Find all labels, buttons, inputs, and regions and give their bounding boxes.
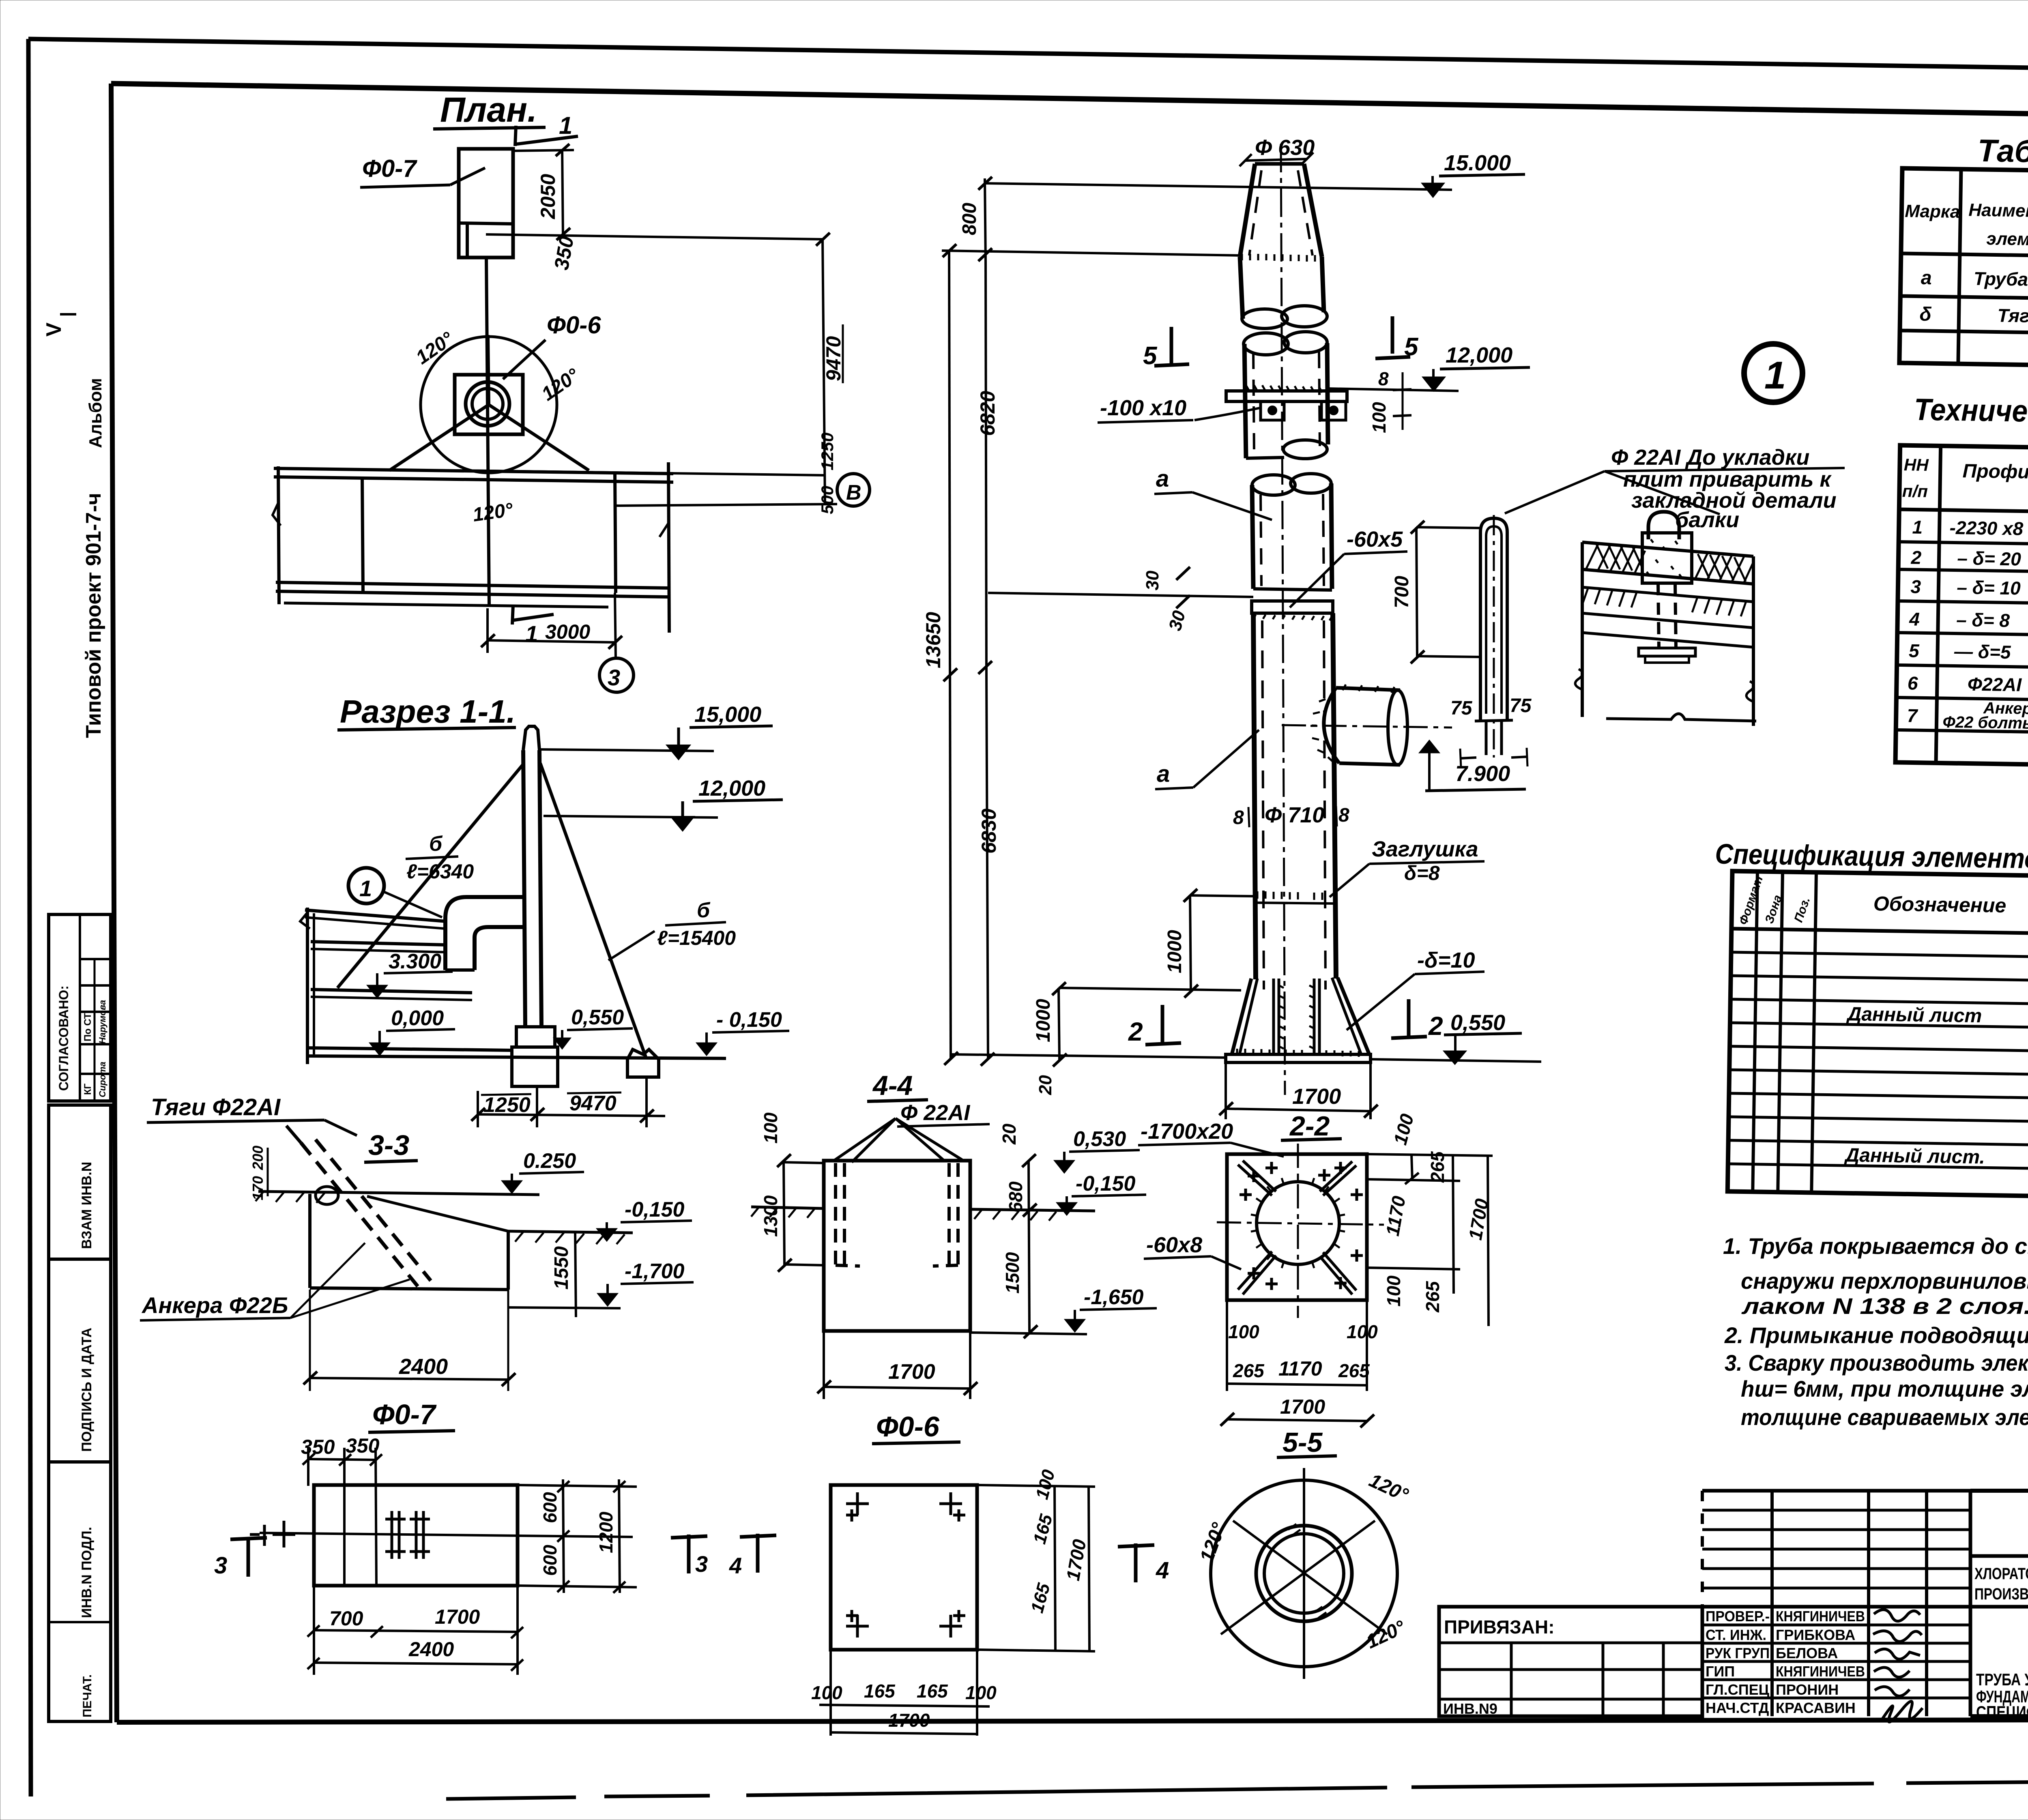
svg-text:элемента: элемента — [1986, 229, 2028, 250]
svg-text:0,000: 0,000 — [391, 1007, 444, 1030]
svg-text:1000: 1000 — [1033, 999, 1054, 1042]
svg-text:-2230 x8: -2230 x8 — [1949, 517, 2024, 539]
svg-text:Нарумова: Нарумова — [97, 1000, 107, 1044]
roof — [305, 910, 446, 921]
svg-text:НН: НН — [1904, 455, 1929, 474]
svg-text:680: 680 — [1005, 1181, 1026, 1213]
svg-text:1700: 1700 — [1280, 1395, 1325, 1418]
anchor bolt below — [1658, 583, 1659, 648]
pit slope — [367, 1196, 508, 1231]
svg-text:13650: 13650 — [922, 612, 945, 668]
svg-text:КГ: КГ — [82, 1083, 93, 1095]
svg-text:СОГЛАСОВАНО:: СОГЛАСОВАНО: — [56, 985, 71, 1091]
svg-text:120°: 120° — [538, 364, 583, 405]
svg-text:1250: 1250 — [483, 1093, 531, 1117]
svg-text:- 0,150: - 0,150 — [716, 1008, 782, 1032]
svg-text:Труба Ф710: Труба Ф710 — [1974, 268, 2028, 291]
svg-text:3: 3 — [1910, 576, 1921, 597]
svg-text:– δ= 10: – δ= 10 — [1957, 577, 2021, 599]
svg-text:δ: δ — [1919, 304, 1932, 325]
svg-text:7.900: 7.900 — [1455, 762, 1510, 786]
chimney pedestal — [516, 1027, 555, 1047]
weld ticks zaglushka — [1257, 891, 1322, 900]
svg-text:6830: 6830 — [977, 809, 1000, 854]
section mark 4 right of FO-6 — [1134, 1543, 1138, 1582]
svg-text:2: 2 — [1128, 1017, 1143, 1046]
svg-text:6: 6 — [1908, 672, 1918, 693]
svg-text:0.250: 0.250 — [523, 1149, 576, 1173]
privyazan table — [1439, 1607, 1702, 1716]
base skirt left slant — [1232, 979, 1251, 1054]
svg-text:165: 165 — [917, 1680, 948, 1702]
svg-text:100: 100 — [1368, 402, 1390, 433]
svg-text:0,550: 0,550 — [571, 1006, 624, 1029]
svg-text:ℓ=15400: ℓ=15400 — [657, 927, 736, 949]
svg-text:3000: 3000 — [545, 620, 590, 643]
base plate — [1226, 1054, 1371, 1062]
svg-text:В: В — [846, 481, 861, 504]
svg-text:ГРИБКОВА: ГРИБКОВА — [1776, 1627, 1855, 1643]
svg-text:1500: 1500 — [1002, 1252, 1023, 1294]
svg-text:а: а — [1156, 466, 1169, 492]
svg-text:5-5: 5-5 — [1283, 1427, 1323, 1458]
svg-text:165: 165 — [1029, 1512, 1056, 1546]
svg-text:2400: 2400 — [399, 1354, 448, 1379]
dim 2050 — [513, 150, 574, 151]
svg-text:Ф 710: Ф 710 — [1265, 803, 1324, 827]
svg-text:800: 800 — [959, 203, 980, 235]
svg-text:3-3: 3-3 — [368, 1129, 409, 1161]
svg-text:3: 3 — [608, 665, 620, 690]
svg-text:б: б — [429, 832, 443, 856]
svg-text:ПОДПИСЬ И ДАТА: ПОДПИСЬ И ДАТА — [79, 1328, 95, 1452]
signatures — [1874, 1610, 1920, 1621]
pit block outline — [308, 1194, 312, 1288]
base level line — [951, 1054, 1227, 1058]
section mark 3 right — [687, 1535, 691, 1573]
svg-text:1300: 1300 — [760, 1195, 781, 1237]
svg-text:1: 1 — [1764, 354, 1786, 397]
stamp box Взам инв — [49, 1105, 111, 1259]
anchor square FO-6 — [455, 375, 523, 434]
dim 700 rod — [1416, 527, 1480, 528]
svg-text:ПЕЧАТ.: ПЕЧАТ. — [81, 1674, 94, 1717]
anchor foundation — [627, 1050, 659, 1077]
TABLE2 — [1895, 392, 2028, 771]
svg-text:2: 2 — [1428, 1011, 1443, 1041]
svg-text:δ=8: δ=8 — [1404, 862, 1440, 884]
inner frame left — [111, 84, 117, 1722]
svg-text:100: 100 — [760, 1112, 781, 1144]
svg-text:200: 200 — [249, 1146, 266, 1170]
svg-text:1170: 1170 — [1278, 1357, 1322, 1380]
svg-text:8: 8 — [1233, 807, 1244, 828]
svg-text:20: 20 — [1035, 1075, 1055, 1095]
center horizontal line — [456, 470, 825, 475]
ground lines 4-4 — [751, 1207, 824, 1208]
svg-text:3: 3 — [214, 1552, 227, 1579]
svg-text:Заглушка: Заглушка — [1372, 837, 1478, 861]
dim 6830 — [986, 675, 988, 1059]
dim line to B — [615, 504, 837, 506]
5-5 circles — [1211, 1480, 1397, 1667]
svg-text:-100 x10: -100 x10 — [1100, 396, 1186, 420]
svg-text:700: 700 — [1391, 576, 1413, 608]
TABLE1 — [1899, 131, 2028, 372]
2-2 circle — [1257, 1182, 1339, 1264]
svg-text:КРАСАВИН: КРАСАВИН — [1776, 1700, 1856, 1716]
main trunk — [1253, 613, 1256, 979]
inner frame bottom — [117, 1719, 2028, 1722]
5-5 radials — [1303, 1468, 1305, 1679]
anchor bolts — [385, 1511, 406, 1559]
svg-text:балки: балки — [1675, 508, 1739, 532]
dim 1000 lower — [1059, 988, 1059, 1061]
vertical dim 9470 — [823, 239, 825, 504]
svg-text:Обозначение: Обозначение — [1873, 892, 2006, 917]
svg-text:9470: 9470 — [822, 336, 845, 381]
svg-text:1: 1 — [559, 112, 572, 139]
svg-text:Типовой проект 901-7-ч: Типовой проект 901-7-ч — [82, 493, 105, 738]
svg-text:По СТ: По СТ — [82, 1013, 93, 1041]
guy wire right — [540, 763, 646, 1057]
svg-text:План.: План. — [440, 90, 537, 129]
svg-text:Техническая спецификация стали: Техническая спецификация стали. — [1914, 393, 2028, 434]
svg-text:hш= 6мм, при толщине элементов: hш= 6мм, при толщине элементов менее 6мм… — [1741, 1376, 2028, 1401]
center line — [1281, 144, 1285, 1095]
FO-6 bottom dims — [829, 1650, 832, 1736]
svg-text:4-4: 4-4 — [872, 1070, 913, 1101]
svg-text:1: 1 — [359, 876, 372, 901]
svg-text:-δ=10: -δ=10 — [1417, 948, 1475, 972]
svg-text:ТРУБА УЗЛЫ. СЕЧЕНИЯ: ТРУБА УЗЛЫ. СЕЧЕНИЯ — [1976, 1670, 2028, 1689]
svg-text:Альбом: Альбом — [86, 378, 105, 448]
skirt ribs — [1272, 979, 1275, 1054]
svg-text:Наименован.: Наименован. — [1968, 200, 2028, 221]
svg-text:Разрез 1-1.: Разрез 1-1. — [340, 693, 516, 730]
svg-text:Ф 22АІ До укладки: Ф 22АІ До укладки — [1611, 445, 1809, 470]
corner bolts — [1240, 1162, 1278, 1201]
svg-text:3. Сварку производить электрод: 3. Сварку производить электродами типа Э… — [1725, 1350, 2028, 1376]
guy wire left — [337, 763, 524, 988]
svg-text:265: 265 — [1338, 1360, 1370, 1381]
personnel upper grid — [1701, 1491, 1704, 1607]
svg-text:12,000: 12,000 — [1446, 343, 1512, 367]
level 15.000 — [985, 183, 1452, 190]
svg-text:1: 1 — [1912, 516, 1923, 537]
screed band — [1582, 587, 1753, 602]
svg-text:1000: 1000 — [1164, 930, 1186, 973]
section mark 5 right — [1391, 316, 1394, 354]
anchor rod dashed — [301, 1143, 418, 1286]
radial wires — [488, 335, 489, 405]
svg-text:-0,150: -0,150 — [625, 1198, 685, 1221]
svg-text:ГИП: ГИП — [1706, 1663, 1735, 1680]
svg-text:а: а — [1157, 761, 1170, 787]
foundation FO-7 plan box — [459, 149, 513, 258]
svg-text:– δ= 8: – δ= 8 — [1956, 609, 2010, 631]
svg-text:0,530: 0,530 — [1073, 1127, 1126, 1151]
outer border top — [28, 39, 2028, 74]
svg-text:700: 700 — [329, 1607, 363, 1630]
svg-text:75: 75 — [1450, 698, 1473, 719]
svg-text:1250: 1250 — [818, 433, 837, 470]
svg-text:Ф0-6: Ф0-6 — [547, 311, 601, 339]
svg-text:1: 1 — [525, 621, 538, 646]
svg-text:БЕЛОВА: БЕЛОВА — [1776, 1645, 1838, 1661]
1550 dim — [575, 1232, 576, 1317]
svg-text:120°: 120° — [1196, 1520, 1230, 1565]
anchor bars dashed — [834, 1163, 837, 1265]
ground surface upper — [258, 1191, 539, 1195]
svg-text:ИНВ.N9: ИНВ.N9 — [1443, 1700, 1497, 1717]
svg-text:СПЕЦИФИКАЦИИ: СПЕЦИФИКАЦИИ — [1976, 1702, 2028, 1721]
svg-text:170: 170 — [249, 1176, 266, 1200]
SEC33 — [140, 1094, 694, 1391]
branch tee — [1324, 688, 1339, 763]
svg-text:100: 100 — [811, 1682, 842, 1703]
svg-text:лаком N 138 в 2 слоя.: лаком N 138 в 2 слоя. — [1741, 1293, 2028, 1319]
svg-text:Формат: Формат — [1736, 874, 1766, 927]
svg-text:265: 265 — [1422, 1281, 1443, 1313]
svg-text:2. Примыкание подводящих труб: 2. Примыкание подводящих труб см. чертеж… — [1724, 1322, 2028, 1348]
4-4 guy rods — [834, 1118, 896, 1161]
foundation rect — [314, 1485, 518, 1586]
top cone — [1240, 164, 1255, 257]
svg-text:ПРОИЗВОДИТЕЛЬНОСТЬЮ 12,5 КГ ТО: ПРОИЗВОДИТЕЛЬНОСТЬЮ 12,5 КГ ТОВАРНОГО ХЛ… — [1974, 1585, 2028, 1603]
anchor loop top — [1648, 512, 1679, 539]
svg-text:265: 265 — [1233, 1360, 1265, 1381]
4-4 box — [824, 1161, 970, 1331]
svg-text:2-2: 2-2 — [1289, 1111, 1330, 1142]
svg-text:600: 600 — [539, 1492, 561, 1523]
duct elbow — [445, 897, 524, 970]
collar plate -100x10 — [1246, 385, 1322, 393]
svg-text:7: 7 — [1907, 705, 1918, 726]
inner frame top — [111, 84, 2028, 121]
svg-text:Таблица сечений.: Таблица сечений. — [1977, 133, 2028, 172]
lower pipe section — [1252, 475, 1295, 495]
guy circle — [421, 337, 557, 473]
FO-6 square — [831, 1485, 977, 1650]
svg-text:120°: 120° — [471, 499, 514, 526]
svg-text:100: 100 — [1347, 1321, 1378, 1342]
svg-text:ℓ=6340: ℓ=6340 — [406, 860, 474, 883]
level 7.900 — [1420, 740, 1439, 753]
svg-text:Профиль: Профиль — [1962, 460, 2028, 483]
outer border bottom (dashed) — [446, 1778, 2028, 1799]
svg-text:-1700x20: -1700x20 — [1141, 1119, 1233, 1144]
svg-text:Ф0-6: Ф0-6 — [876, 1411, 940, 1442]
svg-text:V: V — [42, 322, 66, 337]
svg-text:Данный лист.: Данный лист. — [1843, 1144, 1985, 1168]
svg-text:ПРОНИН: ПРОНИН — [1776, 1681, 1839, 1698]
footing top line — [1059, 988, 1241, 990]
stamp box Подпись и дата — [49, 1259, 111, 1462]
bottom dims — [313, 1586, 315, 1675]
svg-text:8: 8 — [1338, 805, 1349, 826]
dim 1250 9470 — [478, 1114, 665, 1116]
svg-text:350: 350 — [550, 234, 578, 272]
svg-text:600: 600 — [539, 1545, 561, 1576]
PLANVIEW — [273, 90, 870, 692]
svg-text:-60x5: -60x5 — [1347, 527, 1403, 552]
svg-text:0,550: 0,550 — [1450, 1011, 1505, 1035]
tie rod detail — [1480, 518, 1507, 720]
dim 1000 upper — [1190, 895, 1254, 896]
left cross mark — [263, 1525, 266, 1546]
weld ticks around circle — [1251, 1175, 1345, 1271]
level line cone base — [942, 251, 1242, 255]
svg-text:б: б — [697, 899, 711, 922]
svg-text:30: 30 — [1143, 571, 1162, 590]
plate block — [1642, 533, 1692, 583]
beam verticals — [278, 466, 279, 604]
circle 1 callout — [348, 868, 384, 904]
svg-text:265: 265 — [1427, 1151, 1448, 1183]
dim 1700 4-4 — [823, 1333, 825, 1399]
svg-text:ИНВ.N ПОДЛ.: ИНВ.N ПОДЛ. — [79, 1527, 95, 1618]
dim 800 — [985, 178, 986, 262]
building left wall — [306, 908, 309, 1064]
svg-text:ПРИВЯЗАН:: ПРИВЯЗАН: — [1444, 1616, 1555, 1638]
chimney shaft — [523, 750, 525, 1026]
outer border left — [28, 39, 31, 1796]
CHIMNEY — [922, 135, 1530, 1095]
svg-text:Ф0-7: Ф0-7 — [372, 1399, 437, 1430]
svg-text:8: 8 — [1378, 368, 1389, 389]
bottom line with break — [1606, 714, 1756, 721]
section mark 2 right — [1407, 999, 1411, 1037]
gussets — [1238, 1165, 1272, 1195]
dim line to 9470 — [486, 234, 823, 239]
svg-text:2050: 2050 — [537, 174, 559, 219]
svg-text:75: 75 — [1510, 695, 1532, 717]
svg-text:1700: 1700 — [1062, 1538, 1090, 1582]
steel table grid — [1895, 445, 2028, 771]
svg-text:165: 165 — [864, 1680, 896, 1702]
slab hatched band — [1582, 542, 1753, 556]
svg-text:снаружи перхлорвиниловым лаком: снаружи перхлорвиниловым лаком в 3 слоя … — [1741, 1268, 2028, 1294]
branch centerline — [1282, 725, 1452, 728]
svg-text:5: 5 — [1909, 640, 1920, 661]
svg-text:5: 5 — [1404, 333, 1419, 361]
svg-text:Ф 630: Ф 630 — [1255, 135, 1315, 160]
svg-text:12,000: 12,000 — [698, 776, 765, 801]
svg-text:1550: 1550 — [551, 1246, 572, 1290]
svg-text:2: 2 — [1910, 547, 1922, 568]
svg-text:Тяги: Тяги — [1997, 305, 2028, 327]
svg-text:Поз.: Поз. — [1792, 895, 1813, 924]
svg-text:3: 3 — [695, 1551, 708, 1577]
svg-text:п/п: п/п — [1902, 481, 1928, 501]
svg-text:— δ=5: — δ=5 — [1954, 641, 2011, 663]
svg-text:– δ= 20: – δ= 20 — [1957, 547, 2021, 569]
svg-text:3.300: 3.300 — [389, 950, 441, 973]
svg-text:-1,700: -1,700 — [625, 1260, 685, 1283]
FO-6 right dims — [977, 1485, 1095, 1487]
svg-text:1170: 1170 — [1382, 1194, 1409, 1238]
BASEGROUP — [751, 948, 1541, 1736]
svg-text:Марка: Марка — [1905, 201, 1960, 222]
joint ring — [1252, 601, 1333, 613]
svg-text:толщине свариваемых элементов.: толщине свариваемых элементов. — [1741, 1404, 2028, 1430]
middle pipe section — [1244, 333, 1288, 355]
svg-text:4: 4 — [729, 1553, 742, 1578]
lower ground — [508, 1231, 633, 1233]
2-2 right dims — [1367, 1154, 1493, 1156]
svg-text:1700: 1700 — [888, 1710, 930, 1731]
svg-text:1700: 1700 — [888, 1360, 935, 1384]
TITLEBLOCK — [1439, 1491, 2028, 1722]
centerlines 2-2 — [1297, 1144, 1299, 1318]
top cylinder below cone — [1240, 257, 1243, 319]
svg-text:100: 100 — [1383, 1275, 1404, 1307]
svg-text:15,000: 15,000 — [694, 702, 761, 727]
svg-text:4: 4 — [1909, 608, 1920, 629]
right dims 600 600 1200 — [518, 1485, 637, 1487]
side verticals — [1581, 542, 1584, 717]
svg-text:2400: 2400 — [408, 1638, 454, 1661]
svg-text:-1,650: -1,650 — [1084, 1286, 1144, 1309]
NOTES — [1723, 1233, 2028, 1430]
ground hatching left — [256, 1191, 324, 1203]
weld ticks base — [1237, 1049, 1359, 1057]
TABLE3 — [1710, 838, 2028, 1202]
svg-text:4: 4 — [1156, 1557, 1169, 1584]
svg-text:СТ. ИНЖ.: СТ. ИНЖ. — [1706, 1627, 1766, 1643]
dim 2400 — [310, 1378, 508, 1380]
svg-text:-0,150: -0,150 — [1076, 1172, 1136, 1195]
2-2 plate square — [1227, 1154, 1367, 1300]
stamp box Инв N подл — [49, 1462, 111, 1721]
DETAILS — [1391, 445, 1845, 767]
svg-text:1200: 1200 — [595, 1511, 617, 1553]
base skirt right slant — [1338, 978, 1369, 1054]
svg-text:100: 100 — [965, 1682, 997, 1703]
dim 3000 — [488, 640, 615, 642]
svg-text:Ф 22АІ: Ф 22АІ — [900, 1101, 970, 1125]
beam lines — [1582, 613, 1753, 628]
svg-text:100: 100 — [1389, 1112, 1418, 1147]
svg-text:100: 100 — [1228, 1321, 1259, 1342]
svg-text:1700: 1700 — [435, 1605, 480, 1628]
svg-text:КНЯГИНИЧЕВ: КНЯГИНИЧЕВ — [1776, 1608, 1865, 1625]
svg-text:КНЯГИНИЧЕВ: КНЯГИНИЧЕВ — [1776, 1663, 1865, 1680]
svg-text:9470: 9470 — [569, 1092, 617, 1115]
weld ticks cone base — [1242, 254, 1315, 262]
svg-text:30: 30 — [1165, 608, 1189, 633]
table sechenij grid — [1899, 168, 2028, 372]
svg-text:а: а — [1921, 267, 1932, 289]
svg-text:15.000: 15.000 — [1444, 151, 1511, 175]
svg-text:350: 350 — [301, 1436, 335, 1458]
detail circle 1 — [1744, 344, 1802, 402]
svg-text:120°: 120° — [1366, 1470, 1411, 1506]
node circle 3 — [599, 658, 634, 692]
svg-text:ВЗАМ ИНВ.N: ВЗАМ ИНВ.N — [79, 1162, 95, 1249]
RAZREZ — [300, 693, 789, 1127]
right part frame — [1970, 1489, 2028, 1493]
svg-text:ХЛОРАТОРНАЯ ДЛЯ ОБЕЗЗАРАЖИВАНИ: ХЛОРАТОРНАЯ ДЛЯ ОБЕЗЗАРАЖИВАНИЯ ПИТЬЕВЫХ… — [1974, 1565, 2028, 1583]
base level line right — [1371, 1059, 1541, 1062]
personnel name rows — [1702, 1605, 1970, 1609]
svg-text:ПРОВЕР.-: ПРОВЕР.- — [1706, 1608, 1770, 1625]
stamp box Согласовано — [49, 914, 111, 1101]
svg-text:Данный лист: Данный лист — [1845, 1003, 1982, 1027]
FO-6 bolts — [846, 1492, 869, 1522]
joint 30 30 — [988, 593, 1253, 597]
